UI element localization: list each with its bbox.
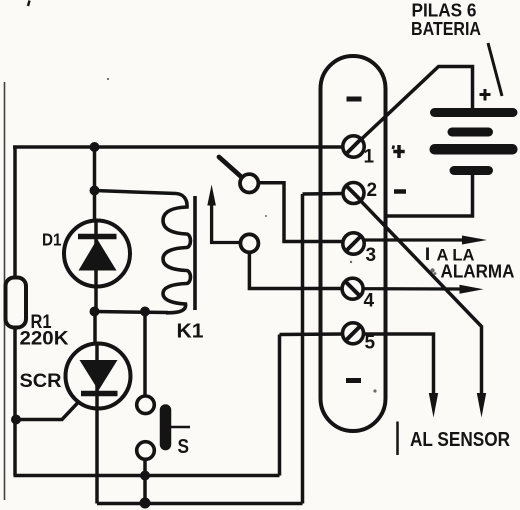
relay contact upper [240, 174, 258, 192]
D1 cathode bar [78, 234, 117, 240]
wire terminal 2 left [303, 192, 345, 196]
wire left rail upper [13, 147, 17, 278]
diode D1 circle [64, 221, 130, 287]
battery positive wire [361, 67, 473, 140]
relay coil K1 [163, 194, 191, 313]
terminal strip minus bottom [346, 378, 361, 383]
screw terminal 5 [343, 323, 364, 344]
polarity plus near terminal 1 [393, 150, 404, 154]
svg-text:220K: 220K [20, 329, 69, 350]
battery negative return wire [385, 175, 473, 216]
svg-text:1: 1 [364, 147, 375, 168]
wire left rail lower [13, 327, 17, 476]
wire riser to terminal 2 [301, 194, 305, 504]
svg-text:D1: D1 [42, 230, 62, 250]
armature arrowhead [207, 185, 216, 206]
wire coil bottom row [95, 312, 169, 313]
svg-text:PILAS 6: PILAS 6 [412, 1, 477, 21]
relay lever [219, 157, 242, 178]
wire from lower relay contact to terminal 4 [249, 252, 343, 288]
wire riser to terminal 5 [278, 335, 282, 476]
junction switch / bottom rail 2 [140, 498, 151, 509]
svg-text:4: 4 [364, 291, 375, 312]
battery plate 4 short [450, 166, 494, 175]
sensor left arrowhead [429, 393, 438, 418]
SCR circle [66, 344, 131, 409]
screw terminal 4 [342, 278, 363, 299]
wire from upper relay contact to terminal 3 [258, 183, 343, 242]
wire top rail [13, 145, 343, 149]
wire diode branch [93, 147, 97, 222]
SCR triangle [80, 360, 118, 391]
wire SCR cathode down [95, 345, 99, 504]
wire coil branch row [95, 191, 177, 194]
terminal 4 arrow to alarm [364, 287, 462, 290]
wire bottom rail 2 [97, 502, 303, 506]
page border line [4, 82, 6, 500]
sensor right arrowhead [477, 393, 486, 418]
svg-text:AL SENSOR: AL SENSOR [410, 429, 510, 451]
battery plate 2 short [448, 128, 494, 137]
label bar A LA [426, 248, 429, 261]
switch upper contact [137, 396, 155, 414]
svg-text:K1: K1 [177, 321, 204, 343]
D1 triangle [79, 239, 117, 271]
junction D1 / relay coil top [90, 186, 100, 196]
screw terminal 3 [343, 233, 364, 254]
battery plate 3 long [430, 144, 518, 155]
svg-text:5: 5 [365, 333, 376, 354]
wire bottom rail 1 [14, 474, 280, 478]
terminal strip outline [321, 56, 386, 431]
switch tick [168, 437, 170, 443]
battery plus sign [480, 93, 491, 96]
relay core bar [193, 196, 197, 310]
battery plate 1 long [430, 108, 518, 117]
switch S bar [160, 410, 172, 445]
wire through D1 [94, 222, 98, 312]
wire switch branch [143, 312, 147, 397]
polarity minus near terminal 2 [394, 189, 406, 194]
terminal strip minus top [347, 97, 362, 102]
screw terminal 2 [343, 183, 364, 204]
terminal 3 arrow to alarm [365, 238, 464, 241]
svg-text:3: 3 [366, 245, 377, 266]
svg-text:2: 2 [367, 180, 378, 201]
wire terminal 5 left [280, 332, 345, 336]
junction coil bottom / switch branch [140, 307, 150, 317]
junction top rail / D1 branch [90, 142, 100, 152]
switch lower contact [137, 442, 155, 460]
svg-text:ALARMA: ALARMA [441, 262, 515, 282]
wire terminal 5 right to sensor [363, 334, 434, 394]
switch arm line [171, 426, 190, 429]
relay contact lower [240, 234, 258, 252]
wire SCR anode [93, 312, 97, 346]
screw terminal 1 [343, 136, 364, 157]
SCR cathode bar [81, 391, 118, 397]
junction switch / bottom rail 1 [140, 471, 150, 481]
SCR gate wire [16, 403, 78, 420]
resistor R1 [6, 278, 27, 328]
sensor diagonal from terminal 2 [358, 198, 482, 395]
junction SCR gate / left rail [11, 415, 21, 425]
wire below lower contact [143, 460, 147, 504]
svg-text:S: S [178, 436, 190, 458]
junction D1 / SCR anode [90, 307, 100, 317]
armature arrow shaft [212, 202, 241, 243]
svg-text:BATERIA: BATERIA [411, 19, 481, 39]
svg-text:SCR: SCR [20, 371, 62, 392]
label bar AL SENSOR [396, 422, 399, 456]
battery pointer line [488, 43, 502, 96]
stray mark top [28, 1, 30, 7]
